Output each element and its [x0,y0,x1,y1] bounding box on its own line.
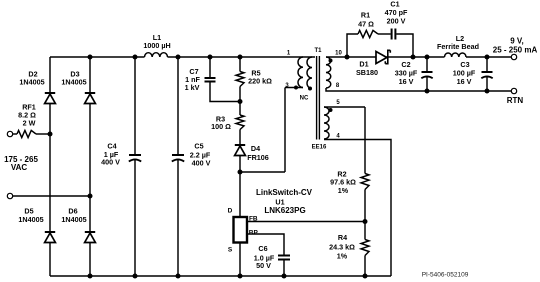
resistor R1 47 ohm zigzag [358,30,378,37]
wire bottom return rail [50,275,391,277]
wire U1 source pin to return rail [239,243,241,277]
svg-text:BP: BP [249,229,259,236]
capacitor C7 1nF 1kV line [210,57,240,102]
junction C3 bottom [485,89,490,94]
svg-text:9 V,: 9 V, [510,36,524,45]
junction C4 bottom [133,274,138,279]
wire secondary pin 8 to return rail [326,88,511,91]
junction C2 top [425,55,430,60]
svg-text:R1: R1 [361,11,370,20]
svg-text:2 W: 2 W [23,119,36,128]
svg-text:C6: C6 [258,244,267,253]
junction R5 top / bus [238,55,243,60]
junction D2 top / bus [88,55,93,60]
output terminal 9V [511,54,516,59]
svg-text:16 V: 16 V [399,77,414,86]
transformer T1 parallel primary winding (NC) [307,57,312,89]
diode D2 1N4005 [45,93,56,104]
svg-text:R4: R4 [338,233,347,242]
diode D5 1N4005 [45,232,56,243]
wire C1 to rail [396,34,413,57]
diode D4 FR106 [235,145,246,156]
junction RF1/bridge AC node [48,132,53,137]
svg-text:1 kV: 1 kV [185,83,200,92]
resistor R3 100 ohm leads [239,102,241,146]
junction C2 bottom [425,89,430,94]
svg-text:PI-5406-052109: PI-5406-052109 [422,271,469,278]
wire AC terminal 2 to bridge [13,195,90,197]
junction secondary pin 10 / snubber [345,55,350,60]
capacitor C5 plates [172,155,184,162]
capacitor C7 plates [205,78,216,82]
svg-text:FR106: FR106 [247,153,269,162]
junction U1 source / return rail [238,274,243,279]
junction C7 top / bus [208,55,213,60]
wire bias pin 4 down to return rail [324,140,391,277]
capacitor C3 100uF 16V line [486,57,488,91]
svg-text:1000 µH: 1000 µH [143,41,170,50]
svg-text:S: S [228,246,233,253]
junction AC2/bridge node [88,194,93,199]
output terminal RTN [511,88,516,93]
resistor R5 220k leads [239,57,241,102]
svg-text:C5: C5 [194,142,203,151]
svg-text:1N4005: 1N4005 [61,78,86,87]
wire bias pin 5 to R2 [324,106,365,108]
svg-text:100 Ω: 100 Ω [211,122,231,131]
transformer T1 secondary winding pins 10-8 [326,57,331,88]
wire AC line 1 vertical (bridge left leg) [49,57,51,276]
svg-text:200 V: 200 V [387,17,406,26]
wire secondary output rail [326,56,511,58]
phase dot bias pin 5 [329,108,333,112]
capacitor C3 plates [481,72,492,78]
phase dot NC winding [308,87,312,91]
inductor L2 ferrite bead [445,53,467,57]
capacitor C4 plates [129,155,141,162]
IC U1 LNK623PG body [234,217,248,243]
svg-text:400 V: 400 V [192,159,211,168]
junction D6 bottom / return [88,274,93,279]
svg-text:1%: 1% [338,186,349,195]
wire top DC bus rail left [50,56,145,58]
svg-text:50 V: 50 V [256,261,271,270]
junction FB node [363,219,368,224]
wire R4 to return rail [364,256,366,277]
svg-text:10: 10 [335,50,342,56]
junction R4 / return rail [363,274,368,279]
AC input terminal 1 [7,131,12,136]
svg-text:5: 5 [336,100,340,106]
resistor RF1 8.2 ohm 2 W fusible [17,130,36,137]
wire R2 to FB node [364,190,366,240]
svg-text:D4: D4 [251,144,260,153]
junction C3 top [485,55,490,60]
junction clamp node R5/C7/R3 [238,99,243,104]
svg-text:4: 4 [336,134,340,140]
phase dot primary pin 3 [294,86,298,90]
capacitor C5 2.2uF 400V line [177,57,179,276]
wire D4 cathode to drain node [239,156,241,217]
svg-text:EE16: EE16 [312,145,327,151]
svg-text:1%: 1% [337,252,348,261]
junction C6 / return rail [282,274,287,279]
resistor R2 97.6k zigzag [361,174,369,190]
capacitor C2 plates [421,72,432,78]
AC input terminal 2 [7,193,12,198]
resistor R5 220k zigzag [236,72,244,87]
wire primary pin 3 to winding [285,87,303,89]
svg-text:1: 1 [287,51,291,57]
capacitor C4 1uF 400V line [134,57,136,276]
svg-text:47 Ω: 47 Ω [358,20,374,29]
transformer T1 primary winding pins 1-3 [298,57,303,88]
capacitor C2 330uF 16V line [426,57,428,91]
svg-text:400 V: 400 V [101,158,120,167]
diode D6 1N4005 [85,232,96,243]
svg-text:D: D [228,207,233,214]
svg-text:1N4005: 1N4005 [61,215,86,224]
capacitor C1 470pF 200V plates [392,29,396,40]
inductor L1 [145,53,168,57]
transformer T1 bias winding pins 5-4 [324,107,329,139]
resistor R3 100 ohm zigzag [236,115,244,130]
wire snubber left leg [347,34,358,57]
phase dot secondary pin 10 [329,59,333,63]
wire bias divider upper lead [364,107,366,174]
resistor R4 24.3k zigzag [361,240,369,256]
diode D3 1N4005 [85,93,96,104]
svg-text:VAC: VAC [11,163,28,172]
svg-text:16 V: 16 V [457,77,472,86]
wire RF1 to bridge node [36,133,50,135]
svg-text:8: 8 [336,83,340,89]
junction C4 top [133,55,138,60]
svg-text:1N4005: 1N4005 [18,215,43,224]
svg-text:LinkSwitch-CV: LinkSwitch-CV [256,188,313,197]
capacitor C6 1.0uF 50V plates [278,256,290,260]
svg-text:24.3 kΩ: 24.3 kΩ [329,243,355,252]
svg-text:FB: FB [249,215,258,222]
wire AC terminal 1 to RF1 [13,133,17,135]
wire top DC bus rail right of L1 [168,56,316,58]
wire R1 to C1 [378,33,391,35]
diode D1 SB180 [376,50,390,63]
svg-text:LNK623PG: LNK623PG [264,206,305,215]
junction C5 bottom [176,274,181,279]
wire U1 FB pin to divider [247,221,365,223]
svg-text:1N4005: 1N4005 [19,78,44,87]
transformer T1 core [317,56,320,140]
wire AC line 2 vertical (bridge right leg) [89,57,91,276]
junction drain node [238,170,243,175]
wire primary pin 3 vertical [284,88,286,173]
junction C5 top [176,55,181,60]
svg-text:T1: T1 [314,48,322,54]
wire U1 BP pin to C6 [247,234,284,256]
wire C6 to return rail [283,260,285,277]
svg-text:NC: NC [300,96,309,102]
junction snubber right / D1 cathode [411,55,416,60]
svg-text:220 kΩ: 220 kΩ [248,77,272,86]
svg-text:SB180: SB180 [356,68,378,77]
svg-text:RTN: RTN [507,96,524,105]
wire drain node to primary pin 3 horizontal [240,171,285,173]
svg-text:25 - 250 mA: 25 - 250 mA [493,45,538,54]
svg-text:Ferrite Bead: Ferrite Bead [437,42,479,51]
